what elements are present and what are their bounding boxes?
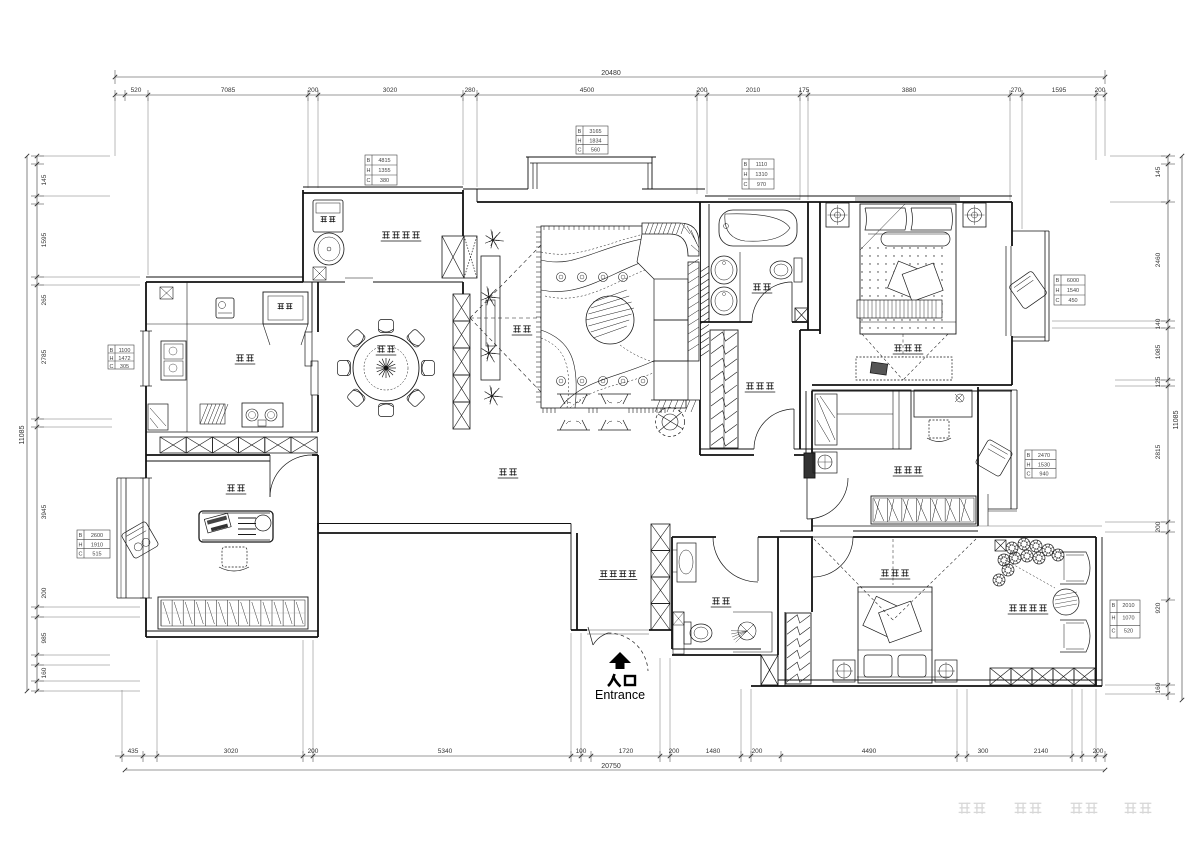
svg-text:2140: 2140 bbox=[1034, 748, 1049, 755]
svg-text:H: H bbox=[744, 172, 748, 178]
svg-text:280: 280 bbox=[465, 87, 476, 94]
top overall dimension line 20480 bbox=[115, 76, 1105, 78]
rails: bedroom balcony bbox=[1012, 230, 1049, 232]
svg-text:4815: 4815 bbox=[378, 158, 390, 164]
svg-text:C: C bbox=[744, 182, 748, 188]
gas stove bbox=[242, 403, 283, 427]
wall: entry hall left bbox=[570, 524, 572, 631]
cloakroom wardrobe bbox=[710, 330, 738, 448]
svg-text:920: 920 bbox=[1155, 602, 1162, 613]
svg-text:H: H bbox=[367, 168, 371, 174]
TV cabinet master bedroom bbox=[856, 357, 952, 380]
wardrobe children room bbox=[871, 496, 976, 524]
svg-text:1834: 1834 bbox=[589, 138, 601, 144]
svg-text:11085: 11085 bbox=[19, 425, 26, 444]
desk study bbox=[199, 511, 273, 542]
kitchen appliance bbox=[216, 298, 234, 318]
svg-text:4500: 4500 bbox=[580, 87, 595, 94]
vanity public bath bbox=[677, 543, 696, 582]
wall: master bedroom right bbox=[1011, 202, 1013, 246]
dining chairs bbox=[379, 320, 394, 333]
label: corridor bbox=[499, 468, 507, 470]
plant cluster leisure balcony bbox=[995, 540, 1006, 551]
twin basins bbox=[711, 256, 737, 284]
faint watermark bbox=[959, 803, 1152, 814]
svg-text:380: 380 bbox=[380, 178, 389, 184]
svg-text:200: 200 bbox=[697, 87, 708, 94]
bookshelf study bbox=[158, 597, 308, 629]
ceiling columns master bedroom bbox=[826, 203, 849, 227]
cabinet band below kitchen (X boxes) bbox=[160, 437, 186, 453]
double bed elderly room bbox=[858, 587, 932, 683]
svg-text:200: 200 bbox=[41, 587, 48, 598]
svg-text:200: 200 bbox=[669, 748, 680, 755]
svg-text:2010: 2010 bbox=[1122, 603, 1134, 609]
svg-text:1310: 1310 bbox=[755, 172, 767, 178]
svg-text:1100: 1100 bbox=[119, 348, 131, 354]
svg-text:H: H bbox=[1112, 616, 1116, 622]
top segment dimension chain bbox=[115, 94, 1105, 96]
wall: left exterior bbox=[145, 282, 147, 331]
svg-text:B: B bbox=[79, 533, 83, 539]
wall: laundry balcony bbox=[302, 190, 304, 282]
plants along TV wall bbox=[493, 239, 495, 241]
svg-text:520: 520 bbox=[1124, 628, 1133, 634]
wall: master bath bottom with door opening bbox=[700, 321, 752, 323]
bay window living room top bbox=[526, 156, 656, 158]
wall: public bath sides bbox=[671, 537, 673, 630]
svg-text:450: 450 bbox=[1068, 298, 1077, 304]
svg-text:1110: 1110 bbox=[756, 162, 767, 168]
svg-text:H: H bbox=[1027, 462, 1031, 468]
svg-text:3165: 3165 bbox=[589, 129, 601, 135]
wall: corridor bottom exterior bbox=[318, 523, 571, 525]
desk children room bbox=[914, 390, 972, 417]
svg-text:H: H bbox=[578, 138, 582, 144]
window: study left bbox=[142, 478, 144, 598]
svg-text:1070: 1070 bbox=[1122, 616, 1134, 622]
sofa seat corner cut bbox=[637, 262, 654, 279]
svg-text:200: 200 bbox=[1093, 748, 1104, 755]
armchairs leisure balcony bbox=[1060, 552, 1090, 584]
svg-text:300: 300 bbox=[978, 748, 989, 755]
label: laundry balcony bbox=[382, 231, 390, 233]
svg-text:125: 125 bbox=[1155, 376, 1162, 387]
sofa right section bbox=[688, 262, 699, 361]
floor mat bbox=[200, 404, 225, 424]
wall: cloakroom right bbox=[799, 330, 801, 449]
wall: elderly room bottom exterior bbox=[778, 679, 1102, 681]
svg-text:B: B bbox=[1056, 278, 1060, 284]
label: entry hall bbox=[600, 570, 607, 572]
svg-text:B: B bbox=[110, 348, 114, 354]
svg-text:C: C bbox=[79, 552, 83, 558]
sofa back band (L-shaped, hatched) bbox=[637, 223, 700, 400]
wall: study top with door opening bbox=[146, 454, 270, 456]
right segment dimension chain bbox=[1167, 156, 1169, 700]
window: laundry right (X panes) bbox=[442, 236, 464, 278]
svg-text:2010: 2010 bbox=[746, 87, 761, 94]
svg-text:145: 145 bbox=[41, 174, 48, 185]
sightlines and living room label bbox=[470, 317, 541, 319]
wall: living/bedroom top exterior bbox=[463, 188, 528, 190]
washing machine bbox=[313, 200, 343, 232]
svg-text:1595: 1595 bbox=[41, 232, 48, 247]
svg-text:200: 200 bbox=[752, 748, 763, 755]
svg-text:B: B bbox=[744, 162, 748, 168]
svg-text:20480: 20480 bbox=[601, 70, 621, 77]
svg-text:Entrance: Entrance bbox=[595, 688, 645, 702]
svg-text:1595: 1595 bbox=[1052, 87, 1067, 94]
wall: bedroom/children separator bbox=[812, 384, 1012, 386]
svg-text:3880: 3880 bbox=[902, 87, 917, 94]
TV cabinet living room bbox=[481, 256, 500, 380]
wall: living/master-bath divider bbox=[699, 202, 701, 455]
kitchen double sink bbox=[161, 341, 186, 380]
svg-text:435: 435 bbox=[128, 748, 139, 755]
wall: entry bottom with door opening bbox=[571, 629, 587, 631]
svg-text:305: 305 bbox=[120, 364, 129, 370]
round side table bbox=[656, 408, 685, 437]
window: master bedroom top bbox=[855, 197, 960, 199]
svg-text:2785: 2785 bbox=[41, 349, 48, 364]
svg-text:200: 200 bbox=[1095, 87, 1106, 94]
svg-text:7085: 7085 bbox=[221, 87, 236, 94]
door master bath bbox=[791, 282, 793, 322]
screen: dining/living divider X column bbox=[453, 294, 470, 321]
svg-text:C: C bbox=[578, 148, 582, 154]
decorative pillows bbox=[888, 261, 929, 300]
wall: corridor/children divider with column bbox=[805, 391, 807, 478]
bathtub master bath bbox=[719, 210, 797, 246]
elevation tag tables bbox=[365, 155, 397, 185]
svg-text:145: 145 bbox=[1155, 166, 1162, 177]
svg-text:160: 160 bbox=[1155, 682, 1162, 693]
bottom overall dimension line 20750 bbox=[125, 769, 1105, 771]
fridge bbox=[263, 292, 308, 324]
wall: leisure balcony right bbox=[1095, 537, 1097, 686]
wall: children room right bbox=[977, 387, 979, 526]
svg-text:2470: 2470 bbox=[1038, 453, 1050, 459]
svg-text:100: 100 bbox=[576, 748, 587, 755]
laundry basin bbox=[314, 233, 344, 265]
svg-text:1355: 1355 bbox=[378, 168, 390, 174]
svg-text:1910: 1910 bbox=[91, 542, 103, 548]
svg-text:20750: 20750 bbox=[601, 763, 621, 770]
svg-text:1530: 1530 bbox=[1038, 462, 1050, 468]
shower corner bbox=[733, 612, 772, 652]
living room rug bbox=[541, 226, 686, 408]
right overall dimension line 11085 bbox=[1181, 156, 1183, 700]
svg-text:2460: 2460 bbox=[1155, 252, 1162, 267]
svg-text:5340: 5340 bbox=[438, 748, 453, 755]
bottom segment dimension chain bbox=[115, 755, 1107, 757]
svg-text:270: 270 bbox=[1011, 87, 1022, 94]
svg-text:H: H bbox=[110, 356, 114, 362]
bedroom balcony chair bbox=[1009, 271, 1048, 310]
svg-text:6000: 6000 bbox=[1067, 278, 1079, 284]
label: kitchen bbox=[236, 354, 244, 356]
svg-text:1540: 1540 bbox=[1067, 288, 1079, 294]
svg-text:C: C bbox=[110, 364, 114, 370]
svg-text:140: 140 bbox=[1155, 318, 1162, 329]
svg-text:4490: 4490 bbox=[862, 748, 877, 755]
bed-foot bench bbox=[857, 300, 942, 318]
rails: children balcony bbox=[978, 389, 1017, 391]
svg-text:200: 200 bbox=[1155, 521, 1162, 532]
svg-text:160: 160 bbox=[41, 667, 48, 678]
double bed master bedroom bbox=[860, 204, 956, 334]
svg-text:200: 200 bbox=[308, 748, 319, 755]
kitchen sliding door bbox=[305, 332, 312, 366]
duct shaft box bbox=[761, 655, 778, 685]
ottoman stools bbox=[557, 394, 590, 404]
wall: kitchen top bbox=[146, 276, 303, 278]
entrance arrow bbox=[609, 652, 631, 669]
round dining table bbox=[353, 335, 419, 401]
toilet public bath bbox=[684, 622, 691, 644]
svg-text:970: 970 bbox=[757, 182, 766, 188]
svg-text:3020: 3020 bbox=[224, 748, 239, 755]
left segment dimension chain bbox=[36, 156, 38, 691]
svg-text:1085: 1085 bbox=[1155, 344, 1162, 359]
svg-text:175: 175 bbox=[799, 87, 810, 94]
svg-text:C: C bbox=[1056, 298, 1060, 304]
svg-text:200: 200 bbox=[308, 87, 319, 94]
svg-text:265: 265 bbox=[41, 294, 48, 305]
svg-text:11085: 11085 bbox=[1173, 410, 1180, 429]
svg-text:3020: 3020 bbox=[383, 87, 398, 94]
svg-text:2600: 2600 bbox=[91, 533, 103, 539]
wall: master bedroom left bbox=[819, 202, 821, 334]
svg-text:1720: 1720 bbox=[619, 748, 634, 755]
balustrade X boxes leisure balcony bbox=[990, 668, 1011, 685]
svg-text:H: H bbox=[79, 542, 83, 548]
single bed children room bbox=[812, 390, 911, 449]
svg-text:520: 520 bbox=[131, 87, 142, 94]
west balcony outside study bbox=[116, 478, 118, 598]
round table leisure balcony bbox=[1053, 589, 1079, 615]
rug center medallion bbox=[586, 296, 634, 344]
svg-text:C: C bbox=[1027, 472, 1031, 478]
left overall dimension line 11085 bbox=[26, 156, 28, 691]
svg-text:2815: 2815 bbox=[1155, 444, 1162, 459]
svg-text:B: B bbox=[367, 158, 371, 164]
svg-text:C: C bbox=[1112, 628, 1116, 634]
nightstands elderly room bbox=[833, 660, 855, 682]
svg-text:C: C bbox=[367, 178, 371, 184]
wall: kitchen/dining with sliding door bbox=[311, 282, 313, 332]
window: bedroom balcony bbox=[1005, 246, 1007, 336]
svg-text:515: 515 bbox=[92, 552, 101, 558]
svg-text:1480: 1480 bbox=[706, 748, 721, 755]
window: kitchen left bbox=[142, 331, 144, 386]
svg-text:560: 560 bbox=[591, 148, 600, 154]
svg-text:1472: 1472 bbox=[118, 356, 130, 362]
svg-text:B: B bbox=[1112, 603, 1116, 609]
svg-text:B: B bbox=[578, 129, 582, 135]
svg-text:B: B bbox=[1027, 453, 1031, 459]
shoe cabinet entry hall (X boxes) bbox=[651, 524, 670, 551]
toilet master bath bbox=[794, 258, 802, 282]
svg-text:940: 940 bbox=[1039, 472, 1048, 478]
wall: study bottom exterior bbox=[146, 630, 318, 632]
svg-text:3945: 3945 bbox=[41, 504, 48, 519]
wall: south rooms top band bbox=[672, 536, 716, 538]
svg-text:H: H bbox=[1056, 288, 1060, 294]
svg-text:985: 985 bbox=[41, 632, 48, 643]
wardrobe niche elderly room bbox=[786, 613, 811, 684]
kitchen counters bbox=[186, 282, 188, 324]
